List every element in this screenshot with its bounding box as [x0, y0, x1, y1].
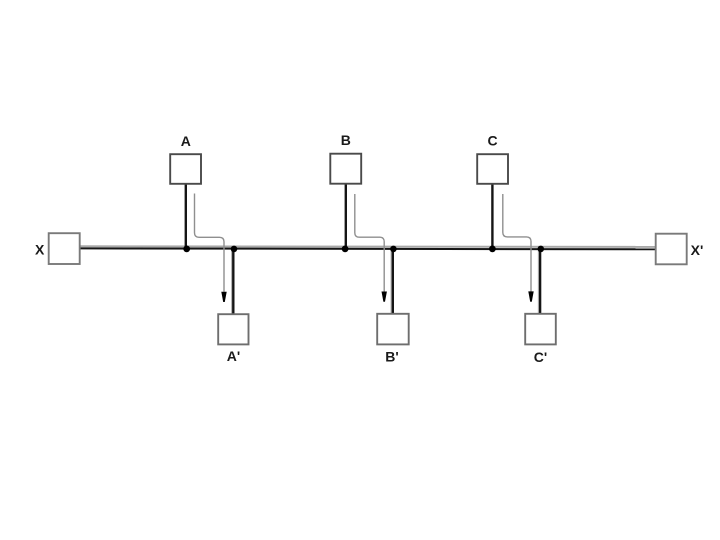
wire from bus to node B' box — [392, 249, 394, 315]
arrowhead C — [528, 291, 533, 301]
signal path B (thin gray wire with arrow) — [355, 194, 384, 292]
svg-text:C: C — [488, 133, 498, 149]
signal path A (thin gray wire with arrow) — [195, 194, 225, 292]
wire from bus to node B' box (gray companion) — [390, 250, 392, 314]
box X — [49, 233, 80, 264]
box C — [477, 154, 508, 184]
box C' — [525, 314, 556, 345]
svg-text:B: B — [341, 132, 351, 148]
wire from bus to node C' box — [539, 249, 541, 315]
box B' — [377, 314, 409, 345]
box X' — [656, 234, 687, 265]
bus line X to X' (gray top stroke) — [80, 245, 656, 248]
bus line X to X' (black stroke) — [80, 247, 656, 250]
arrowhead B — [382, 292, 387, 302]
svg-text:X': X' — [691, 242, 704, 258]
svg-text:A': A' — [227, 348, 240, 364]
box A — [170, 154, 201, 184]
arrowhead A — [221, 292, 226, 302]
junction dot C2 — [538, 246, 545, 253]
wire from node A box to bus — [185, 184, 187, 251]
junction dot A1 — [183, 246, 190, 253]
wire from bus to node C' box (gray companion) — [537, 250, 539, 314]
wire from node C box to bus — [491, 184, 493, 251]
junction dot A2 — [231, 246, 238, 253]
signal path C (thin gray wire with arrow) — [503, 194, 531, 292]
junction dot B2 — [390, 246, 397, 253]
wire from bus to node A' box — [232, 249, 234, 315]
svg-text:C': C' — [534, 349, 547, 365]
wire from bus to node A' box (gray companion) — [231, 250, 233, 314]
svg-text:A: A — [181, 133, 191, 149]
junction dot C1 — [489, 246, 496, 253]
box A' — [218, 314, 248, 344]
svg-text:B': B' — [385, 349, 398, 365]
box B — [330, 154, 361, 184]
svg-text:X: X — [35, 242, 45, 258]
junction dot B1 — [342, 246, 349, 253]
wire from node B box to bus — [345, 184, 347, 251]
